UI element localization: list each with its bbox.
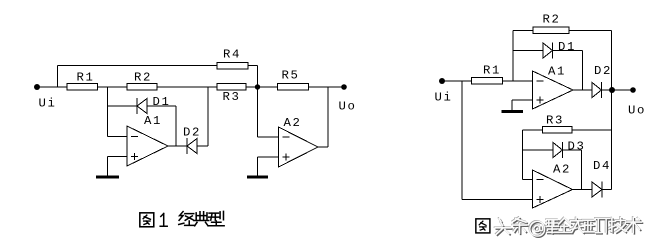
svg-text:A1: A1 [144,114,162,128]
svg-text:Ui: Ui [39,97,57,111]
svg-text:R3: R3 [546,114,564,128]
svg-text:Uo: Uo [628,104,646,118]
svg-text:D4: D4 [593,159,611,173]
svg-text:D1: D1 [153,95,171,109]
svg-text:D1: D1 [558,40,576,54]
svg-text:D2: D2 [183,126,201,140]
svg-text:R2: R2 [134,71,152,85]
svg-text:R1: R1 [483,64,501,78]
svg-text:A2: A2 [284,116,302,130]
svg-text:Uo: Uo [339,100,357,114]
svg-text:A1: A1 [548,65,566,79]
svg-text:R3: R3 [223,90,241,104]
svg-text:R1: R1 [77,71,95,85]
svg-text:R5: R5 [282,69,300,83]
svg-text:R2: R2 [543,13,561,27]
svg-text:D3: D3 [568,140,586,154]
svg-text:R4: R4 [223,48,241,62]
svg-text:Ui: Ui [435,91,453,105]
svg-text:A2: A2 [553,163,571,177]
svg-text:D2: D2 [594,64,612,78]
